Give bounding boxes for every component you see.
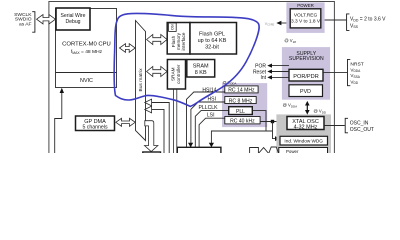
arrow Int [267, 75, 272, 79]
block Bus matrix [136, 21, 146, 141]
block Serial Wire Debug [56, 8, 90, 30]
svg-text:RC 40 kHz: RC 40 kHz [230, 119, 255, 125]
svg-text:Int: Int [260, 75, 266, 81]
POWER purple region [286, 2, 324, 33]
block XTAL OSC [287, 117, 324, 131]
svg-text:VSSA: VSSA [350, 73, 360, 79]
block VOLT.REG [290, 9, 321, 28]
wire RC40kHz to XTAL [260, 121, 287, 123]
svg-text:controller: controller [176, 64, 181, 84]
arrow into NVIC [60, 88, 64, 93]
wire bus right peripheral arrow 2 [145, 106, 164, 153]
wire Reset out [271, 71, 289, 73]
svg-text:3.3 V to 1.8 V: 3.3 V to 1.8 V [291, 19, 321, 25]
arrow supply to xtal updown [305, 101, 310, 115]
svg-text:NVIC: NVIC [80, 78, 93, 84]
svg-text:as AF: as AF [19, 22, 32, 28]
block GP DMA [76, 116, 115, 131]
svg-text:4-32 MHz: 4-32 MHz [294, 125, 318, 131]
arrow clock into RCC 1 [188, 143, 193, 147]
wire Int out [271, 76, 289, 78]
arrow VCORE [276, 21, 281, 25]
arrow Reset [267, 69, 272, 73]
block Flash GPL [190, 23, 237, 55]
bracket VDD VSS [347, 14, 350, 31]
svg-text:POWER: POWER [297, 3, 314, 8]
wire bus matrix to flash interface arrow [147, 35, 167, 45]
wire SRAM controller down buses [174, 89, 177, 153]
svg-text:8 KB: 8 KB [195, 70, 207, 76]
block POR/PDR [289, 69, 323, 81]
wire VCORE out left [280, 22, 286, 24]
wire PLLCLK [195, 110, 228, 153]
wire XTAL line to RCC [211, 131, 272, 144]
svg-text:OSC_OUT: OSC_OUT [350, 127, 374, 133]
arrow into IWDG [275, 136, 280, 141]
arrow clock into RCC 2 [209, 143, 214, 147]
svg-text:CORTEX-M0 CPU: CORTEX-M0 CPU [62, 42, 111, 48]
wire POR out [271, 65, 289, 67]
wire HSI14 [187, 92, 225, 153]
wire NRST to bracket [323, 72, 347, 74]
wire NVIC interrupt line [55, 93, 62, 154]
svg-text:VOLT.REG: VOLT.REG [294, 12, 318, 18]
wire PLL output right [252, 111, 266, 131]
supply supervision purple region [282, 47, 330, 100]
wire SWD double arrow [37, 15, 56, 24]
svg-text:SUPERVISION: SUPERVISION [289, 56, 324, 62]
wire VDD to bracket [325, 19, 347, 21]
wire GP DMA to bus matrix arrow [116, 118, 135, 126]
bracket OSC pins [345, 118, 348, 133]
block RC 14 MHz [225, 86, 258, 94]
svg-text:Serial Wire: Serial Wire [61, 13, 86, 19]
bracket for SWCLK/SWDIO [32, 12, 35, 33]
clock purple region [222, 83, 267, 127]
node SWCLK/SWDIO label [14, 12, 32, 28]
wire LSI [199, 118, 225, 153]
svg-text:VDD: VDD [350, 79, 358, 85]
block Ind. Window WDG [280, 136, 328, 145]
svg-text:HSI: HSI [208, 97, 217, 103]
block PVD [289, 85, 323, 97]
svg-text:LSI: LSI [207, 113, 215, 119]
wire bus right peripheral arrow 1 [145, 99, 169, 153]
block SUPPLY SUPERVISION header [289, 51, 324, 62]
wire bus matrix bent hollow arrow down [145, 121, 158, 152]
XTAL gray region [276, 114, 331, 153]
svg-text:5 channels: 5 channels [82, 125, 107, 131]
junction dot [271, 120, 274, 123]
svg-text:POR/PDR: POR/PDR [293, 74, 319, 80]
block RC 40 kHz [225, 117, 260, 125]
svg-text:Ind. Window WDG: Ind. Window WDG [284, 139, 323, 144]
block Flash memory interface [167, 23, 190, 55]
wire LSI to IWDG [273, 122, 277, 139]
svg-text:Power: Power [286, 149, 299, 153]
svg-text:Debug: Debug [65, 19, 80, 25]
bracket NRST VDDA VSSA VDD [348, 59, 351, 85]
block RC 8 MHz [225, 97, 256, 105]
chip outline [49, 2, 335, 156]
svg-text:PLLCLK: PLLCLK [199, 105, 219, 111]
block AHB decoder (cut off) [143, 152, 161, 156]
svg-text:Obl: Obl [170, 24, 174, 30]
svg-text:SRAM: SRAM [193, 64, 209, 70]
svg-text:PVD: PVD [300, 89, 311, 95]
peripheral arrows cut at bottom left of XTAL [250, 148, 259, 154]
arrow POR [267, 64, 272, 68]
block OBL [169, 23, 177, 31]
svg-text:Flash GPL: Flash GPL [199, 31, 225, 37]
svg-text:VDD = 2 to 3.6 V: VDD = 2 to 3.6 V [350, 17, 386, 23]
svg-text:32-bit: 32-bit [205, 44, 219, 50]
annotation blue loop [114, 13, 259, 106]
svg-text:up to 64 KB: up to 64 KB [198, 38, 227, 44]
block SRAM controller [167, 60, 185, 90]
op block CPU box CORTEX-M0 [56, 9, 117, 88]
block NVIC [56, 73, 117, 84]
block PLL [229, 107, 253, 115]
block SRAM 8 KB [187, 60, 215, 78]
svg-text:RC 8 MHz: RC 8 MHz [229, 98, 253, 104]
svg-text:OSC_IN: OSC_IN [350, 120, 369, 126]
block Power (cut off) [279, 148, 328, 156]
wire XTAL to OSC pins [324, 125, 345, 127]
svg-text:PLL: PLL [236, 109, 245, 115]
svg-text:SRAM: SRAM [171, 67, 176, 81]
svg-text:VSS: VSS [350, 23, 359, 29]
wire HSI [191, 102, 225, 153]
wire bus matrix to SRAM controller arrow [147, 67, 167, 77]
wire CPU to bus matrix arrow [120, 44, 136, 53]
svg-text:RC 14 MHz: RC 14 MHz [228, 88, 255, 94]
block RCC (cut off) [177, 147, 221, 155]
svg-text:Bus matrix: Bus matrix [138, 68, 144, 92]
svg-text:interface: interface [181, 32, 186, 50]
